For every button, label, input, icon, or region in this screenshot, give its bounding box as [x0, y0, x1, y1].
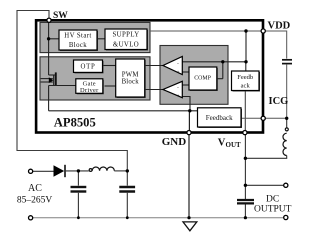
- svg-text:AC: AC: [28, 183, 42, 194]
- svg-text:SUPPLY: SUPPLY: [112, 31, 139, 38]
- svg-text:PWM: PWM: [122, 71, 139, 78]
- svg-text:AP8505: AP8505: [54, 115, 96, 129]
- svg-text:Feedback: Feedback: [206, 114, 233, 122]
- svg-text:Driver: Driver: [80, 87, 99, 94]
- svg-text:+: +: [177, 71, 180, 76]
- svg-text:OTP: OTP: [81, 64, 96, 71]
- svg-text:COMP: COMP: [194, 75, 211, 81]
- svg-text:DC: DC: [266, 194, 279, 204]
- svg-text:Block: Block: [69, 42, 87, 49]
- svg-text:ack: ack: [241, 83, 251, 90]
- svg-text:VDD: VDD: [268, 20, 291, 31]
- svg-text:SW: SW: [53, 11, 68, 21]
- svg-text:&UVLO: &UVLO: [113, 41, 139, 48]
- svg-text:HV Start: HV Start: [64, 32, 91, 39]
- svg-text:V: V: [218, 137, 226, 148]
- svg-text:+: +: [177, 94, 180, 99]
- svg-text:Block: Block: [122, 79, 140, 86]
- svg-text:OUTPUT: OUTPUT: [254, 204, 292, 214]
- svg-text:85–265V: 85–265V: [17, 196, 53, 206]
- svg-text:ICG: ICG: [269, 96, 289, 107]
- svg-text:GND: GND: [162, 136, 187, 148]
- svg-text:OUT: OUT: [226, 141, 242, 149]
- svg-text:Feedb: Feedb: [237, 74, 253, 81]
